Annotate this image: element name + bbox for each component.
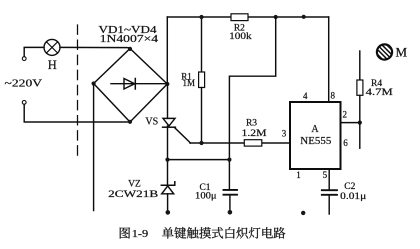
node dots top rail bbox=[199, 15, 305, 19]
svg-text:8: 8 bbox=[331, 91, 336, 101]
wire gate/R3 line to pin 3 bbox=[190, 142, 290, 144]
bridge rectifier VD1-VD4 diamond bbox=[94, 49, 168, 123]
wire lamp to bridge top bbox=[60, 46, 130, 48]
svg-text:H: H bbox=[48, 58, 57, 72]
wire VCC zigzag to C1 bbox=[229, 17, 275, 190]
svg-text:100k: 100k bbox=[229, 32, 252, 42]
wire bbox=[24, 47, 44, 56]
svg-text:R3: R3 bbox=[246, 118, 257, 128]
lamp H bbox=[44, 39, 60, 55]
wire neutral to bridge bottom bbox=[24, 104, 130, 122]
svg-text:VS: VS bbox=[145, 117, 158, 128]
caption Chinese text bbox=[120, 227, 286, 239]
wire bridge minus down bbox=[93, 84, 95, 211]
terminal neutral input bbox=[22, 101, 26, 105]
capacitor C2 bbox=[328, 170, 330, 190]
svg-text:0.01μ: 0.01μ bbox=[340, 192, 366, 202]
wire VS gate bbox=[175, 128, 191, 143]
wire VZ node link bbox=[168, 159, 230, 161]
svg-text:1-9: 1-9 bbox=[132, 228, 149, 240]
svg-text:NE555: NE555 bbox=[300, 136, 331, 147]
zener VZ 2CW21B bbox=[161, 182, 175, 186]
svg-text:1M: 1M bbox=[183, 78, 196, 88]
svg-text:4.7M: 4.7M bbox=[366, 88, 394, 98]
wire bridge plus riser bbox=[166, 17, 168, 84]
wire pin 6 stub bbox=[359, 123, 361, 149]
dashed wall line bbox=[77, 25, 79, 156]
svg-text:1N4007×4: 1N4007×4 bbox=[100, 34, 159, 45]
svg-text:A: A bbox=[311, 124, 319, 135]
terminal live input bbox=[22, 57, 26, 61]
svg-text:C2: C2 bbox=[344, 182, 355, 192]
svg-text:4: 4 bbox=[303, 91, 308, 101]
wire pin 2 bbox=[341, 122, 360, 124]
svg-text:M: M bbox=[396, 44, 408, 59]
thyristor VS bbox=[163, 118, 175, 126]
svg-text:VZ: VZ bbox=[128, 179, 141, 189]
resistor R2 bbox=[231, 14, 248, 21]
svg-text:~220V: ~220V bbox=[5, 79, 44, 90]
svg-text:6: 6 bbox=[343, 138, 348, 148]
resistor R3 bbox=[244, 140, 261, 146]
node dot R1 bottom bbox=[199, 141, 203, 145]
IC A NE555 bbox=[290, 102, 341, 169]
svg-text:2CW21B: 2CW21B bbox=[108, 190, 158, 200]
svg-text:1: 1 bbox=[296, 170, 301, 180]
wire VCC to pins 4,8 bbox=[328, 17, 330, 102]
svg-text:5: 5 bbox=[323, 170, 328, 180]
svg-text:100μ: 100μ bbox=[195, 192, 217, 202]
svg-text:2: 2 bbox=[343, 109, 348, 119]
resistor R4 bbox=[359, 51, 361, 80]
resistor R1 bbox=[201, 17, 203, 72]
svg-text:3: 3 bbox=[282, 129, 287, 139]
touch plate M bbox=[372, 39, 397, 64]
node dots bridge vertices bbox=[92, 47, 170, 124]
bridge internal diode symbol bbox=[111, 83, 167, 85]
top rail bbox=[167, 16, 328, 18]
capacitor C1 bbox=[224, 190, 238, 195]
node dot ground bbox=[301, 211, 305, 215]
svg-text:1.2M: 1.2M bbox=[242, 129, 268, 139]
